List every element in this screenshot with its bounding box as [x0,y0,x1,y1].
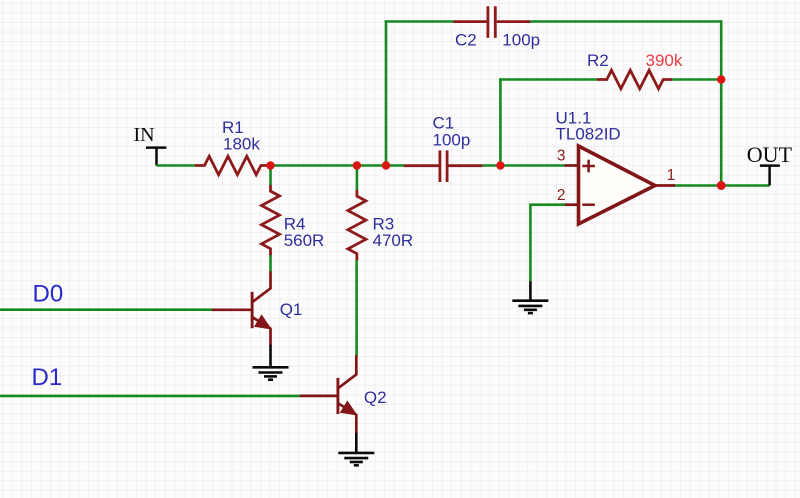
svg-text:D1: D1 [32,364,63,391]
ground for Q1 [253,345,289,380]
wire R4 to Q1 collector [269,255,272,272]
svg-text:560R: 560R [284,231,325,250]
capacitor C1 [404,150,482,182]
ground for Q2 [338,433,374,466]
svg-text:100p: 100p [502,30,540,49]
svg-text:1: 1 [667,167,676,184]
op-amp U1.1 [565,146,676,224]
resistor R1 [195,156,269,175]
transistor Q1 emitter arrow [255,316,270,329]
transistor Q2 emitter arrow [341,402,356,415]
svg-text:Q2: Q2 [364,388,387,407]
wire R3 top [356,166,359,191]
junction node R2 right [717,75,725,83]
wire R2 left [499,78,597,81]
junction node R2 branch [496,161,504,169]
svg-text:C2: C2 [455,30,477,49]
port OUT [760,166,780,186]
transistor Q1 [212,271,271,345]
wire C1 to op-amp pin3 [482,164,565,167]
wire op-amp output [675,184,770,187]
svg-text:2: 2 [557,187,566,204]
svg-text:390k: 390k [646,51,683,70]
junction node after R1 [266,161,274,169]
wire op-amp pin2 to ground [530,205,565,282]
svg-text:180k: 180k [223,135,260,154]
wire R2 branch vertical [499,78,502,165]
wire R3 to Q2 collector [355,260,358,356]
wire R4 top [269,166,272,186]
wire C2 top left [385,20,454,23]
junction node R3 branch [353,161,361,169]
junction node C2 branch [382,161,390,169]
wire IN to R1 [157,164,196,167]
svg-text:TL082ID: TL082ID [556,125,621,144]
resistor R3 [348,190,366,261]
wire right rail upper [720,20,723,79]
svg-text:Q1: Q1 [280,300,303,319]
wire C2 top right [530,20,723,23]
resistor R4 [262,185,280,255]
svg-text:D0: D0 [33,281,64,308]
transistor Q2 [300,355,357,433]
wire D0 [0,308,212,311]
wire right rail lower [720,80,723,186]
ground for op-amp [512,281,548,313]
resistor R2 [597,70,673,89]
svg-text:OUT: OUT [747,142,793,167]
svg-text:100p: 100p [433,131,471,150]
wire C2 branch vertical [385,20,388,165]
svg-text:R2: R2 [587,51,609,70]
svg-text:3: 3 [557,148,566,165]
junction node output [717,181,726,190]
port IN [146,148,166,166]
svg-text:IN: IN [134,124,155,146]
wire R2 right [672,78,721,81]
wire D1 [0,395,300,398]
capacitor C2 [453,6,530,38]
svg-text:470R: 470R [373,231,414,250]
wire R1 to C1 [268,164,405,167]
